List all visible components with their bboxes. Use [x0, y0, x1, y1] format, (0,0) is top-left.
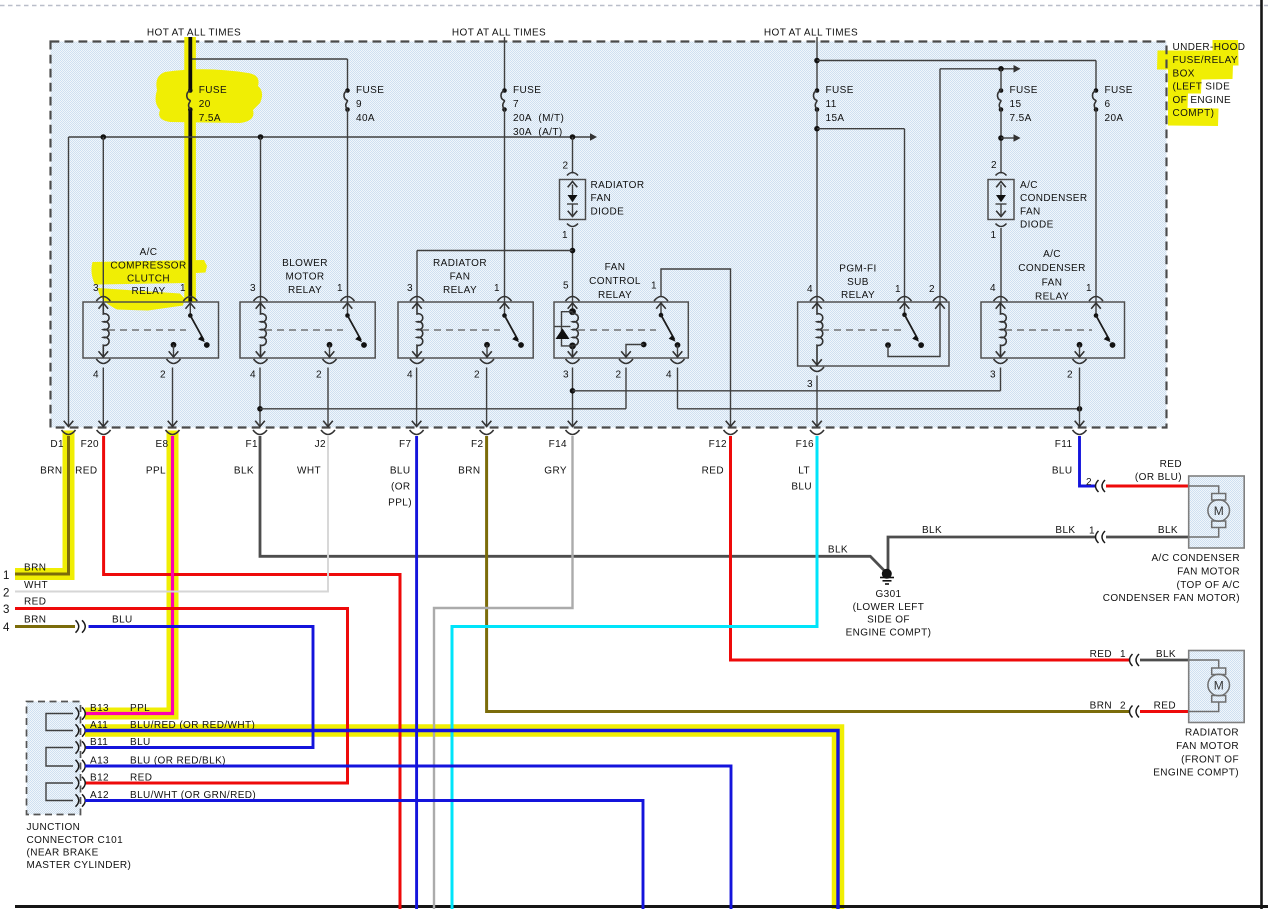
- junction bus / blower relay pin 3: [258, 134, 264, 140]
- relay A/C condenser fan: pin 2 bracket and label: [1073, 359, 1087, 364]
- svg-text:OF ENGINE: OF ENGINE: [1173, 95, 1232, 106]
- svg-text:FUSE: FUSE: [199, 85, 227, 96]
- svg-text:CONDENSER: CONDENSER: [1020, 193, 1088, 204]
- svg-text:4: 4: [990, 283, 996, 294]
- svg-text:2: 2: [616, 370, 622, 381]
- svg-text:(TOP OF A/C: (TOP OF A/C: [1177, 580, 1241, 591]
- svg-text:20A (M/T): 20A (M/T): [513, 113, 564, 124]
- wire PGM-FI sub relay pin 2 riser: [939, 69, 941, 302]
- svg-text:BRN: BRN: [24, 563, 46, 574]
- svg-text:15A: 15A: [826, 113, 845, 124]
- svg-text:4: 4: [407, 370, 413, 381]
- wire connector to radiator motor RED: [1140, 710, 1189, 713]
- svg-text:FUSE: FUSE: [1105, 85, 1133, 96]
- fuse F15 symbol: [999, 88, 1004, 93]
- svg-text:RELAY: RELAY: [1035, 292, 1069, 303]
- svg-text:3: 3: [250, 283, 256, 294]
- svg-text:RED: RED: [130, 773, 152, 784]
- relay radiator fan pin1 entry wire: [504, 302, 506, 316]
- svg-text:3: 3: [990, 370, 996, 381]
- svg-text:B13: B13: [90, 703, 109, 714]
- svg-text:1: 1: [1120, 649, 1126, 660]
- relay fan control: pin 3 bracket and label: [566, 359, 580, 364]
- relay PGM-FI sub pin 1 entry and switch arm: [904, 302, 906, 315]
- svg-text:GRY: GRY: [544, 466, 567, 477]
- svg-text:FUSE: FUSE: [826, 85, 854, 96]
- wire connector to radiator motor BLK: [1140, 659, 1189, 662]
- junction connector C101 pin A13: [76, 760, 79, 772]
- motor M1 A/C condenser fan motor: [1189, 476, 1245, 548]
- relay blower motor pin2 contact and wire: [327, 342, 333, 348]
- svg-text:7: 7: [513, 99, 519, 110]
- wire compressor pin 2 to E8: [172, 368, 174, 428]
- diode radiator fan internals: [572, 185, 574, 196]
- wire line 3 RED to junction connector B12: [15, 609, 348, 784]
- svg-text:6: 6: [1105, 99, 1111, 110]
- wire pin 2 riser to FUSE 15 hot side with off-page arrow: [940, 68, 1014, 70]
- svg-text:2: 2: [474, 370, 480, 381]
- wire compressor pin 4 to F20: [102, 368, 104, 428]
- wire blower pin 2 to J2: [327, 368, 329, 428]
- relay A/C compressor clutch box: [83, 302, 219, 358]
- svg-text:A/C: A/C: [140, 247, 158, 258]
- svg-text:3: 3: [807, 379, 813, 390]
- svg-text:RED: RED: [1154, 701, 1176, 712]
- svg-text:RED: RED: [24, 597, 46, 608]
- wire PGM-FI pin 3 to F16: [816, 376, 818, 428]
- relay fan control NC contact (to pin 2): [641, 342, 647, 348]
- under-hood fuse/relay box dashed border: [51, 42, 1167, 428]
- svg-text:4: 4: [807, 284, 813, 295]
- relay fan control switch arm: [659, 313, 664, 318]
- junction connector C101 pin A11: [76, 724, 79, 736]
- svg-text:A/C CONDENSER: A/C CONDENSER: [1151, 553, 1240, 564]
- svg-text:F20: F20: [81, 439, 99, 450]
- svg-text:BLOWER: BLOWER: [282, 258, 328, 269]
- wire radiator relay pin 2 to F2: [486, 368, 488, 428]
- diode A/C condenser fan internals: [1000, 185, 1002, 196]
- diode radiator fan: pin 1 bracket: [567, 224, 578, 227]
- svg-text:FAN MOTOR: FAN MOTOR: [1176, 741, 1239, 752]
- wire A12 BLU/WHT down to bottom edge: [85, 801, 643, 909]
- ground G301 symbol: [882, 569, 892, 579]
- svg-text:BLK: BLK: [828, 545, 848, 556]
- svg-text:BLK: BLK: [1156, 649, 1176, 660]
- svg-text:SUB: SUB: [847, 277, 869, 288]
- svg-text:ENGINE COMPT): ENGINE COMPT): [1153, 768, 1239, 779]
- svg-text:BRN: BRN: [40, 466, 62, 477]
- junction blower pin 4 / ground crossbar: [257, 406, 263, 412]
- fuse F7 symbol: [502, 88, 507, 93]
- yellow highlight blob over UNDER-HOOD FUSE/RELAY BOX label: [1157, 40, 1239, 126]
- yellow highlight band on D1 BRN wire: [15, 431, 69, 575]
- svg-text:BLU: BLU: [390, 466, 411, 477]
- diode A/C condenser fan: pin 1 bracket: [996, 224, 1007, 227]
- svg-text:BLU: BLU: [130, 737, 151, 748]
- relay radiator fan pin2 contact and wire: [484, 342, 490, 348]
- svg-text:BLU: BLU: [791, 482, 812, 493]
- junction connector C101 box: [27, 702, 81, 815]
- svg-text:RELAY: RELAY: [841, 290, 875, 301]
- wire radiator relay pin 4 to F7: [416, 368, 418, 428]
- page top dashed separator line: [0, 5, 1268, 7]
- wire F1 BLK to ground G301: [260, 436, 887, 573]
- svg-text:(FRONT OF: (FRONT OF: [1181, 754, 1239, 765]
- svg-text:FUSE: FUSE: [1010, 85, 1038, 96]
- svg-text:RED: RED: [75, 466, 97, 477]
- svg-text:J2: J2: [315, 439, 326, 450]
- svg-text:JUNCTION: JUNCTION: [27, 822, 81, 833]
- yellow highlight band on E8 PPL wire: [85, 431, 173, 714]
- svg-text:RELAY: RELAY: [443, 285, 477, 296]
- svg-text:PGM-FI: PGM-FI: [839, 264, 876, 275]
- svg-text:FAN: FAN: [1020, 206, 1041, 217]
- svg-text:7.5A: 7.5A: [199, 113, 221, 124]
- connector inline F11 BLU/RED: [1096, 480, 1099, 492]
- relay fan control coil with parallel diode: [572, 302, 574, 312]
- wire hot feed 3 down to FUSE 11: [816, 37, 818, 91]
- wire diode pin1 to junction: [572, 228, 574, 302]
- svg-text:3: 3: [93, 283, 99, 294]
- svg-text:WHT: WHT: [297, 466, 321, 477]
- relay fan control box: [554, 302, 688, 358]
- diode radiator fan: pin 2 bracket: [567, 173, 578, 176]
- svg-text:RELAY: RELAY: [131, 286, 165, 297]
- svg-text:RADIATOR: RADIATOR: [591, 180, 645, 191]
- svg-text:FAN: FAN: [450, 272, 471, 283]
- svg-text:A/C: A/C: [1043, 249, 1061, 260]
- junction hot feed 3 branch to FUSE 6: [814, 58, 820, 64]
- svg-text:2: 2: [3, 588, 9, 600]
- junction bus / compressor relay pin 3: [101, 134, 107, 140]
- wire crossbar blower pin4 to fan control pin 2: [260, 408, 626, 410]
- relay radiator fan switch arm: [502, 313, 507, 318]
- relay fan control pin1 entry: [660, 302, 662, 315]
- svg-text:3: 3: [407, 283, 413, 294]
- relay A/C condenser fan pin1 entry wire: [1095, 302, 1097, 316]
- svg-text:9: 9: [356, 99, 362, 110]
- svg-text:F11: F11: [1055, 439, 1073, 450]
- connector pin F16 bracket: [810, 430, 824, 435]
- connector pin D1 bracket: [62, 430, 76, 435]
- svg-text:20A: 20A: [1105, 113, 1124, 124]
- svg-text:2: 2: [991, 160, 997, 171]
- svg-text:40A: 40A: [356, 113, 375, 124]
- relay A/C condenser fan pin2 contact and wire: [1077, 342, 1083, 348]
- wire fuse 20 output bus: [69, 136, 593, 138]
- svg-text:BRN: BRN: [1090, 701, 1112, 712]
- connector pin F2 bracket: [480, 430, 494, 435]
- svg-text:1: 1: [3, 570, 9, 582]
- svg-text:M: M: [1214, 679, 1224, 693]
- wire condenser diode pin 1 to relay pin 4: [1000, 228, 1002, 302]
- relay blower motor switch arm: [345, 313, 350, 318]
- svg-text:1: 1: [651, 281, 657, 292]
- wire hot feed to FUSE 20 yellow highlight band: [184, 37, 196, 302]
- relay radiator fan: pin 4 bracket and label: [410, 359, 424, 364]
- wire FUSE 6 output to A/C condenser fan relay pin 1: [1095, 110, 1097, 303]
- wire fan control pin 1 to F12 riser: [661, 269, 731, 427]
- svg-text:(NEAR BRAKE: (NEAR BRAKE: [27, 848, 99, 859]
- svg-text:20: 20: [199, 99, 211, 110]
- svg-text:3: 3: [563, 370, 569, 381]
- svg-text:BLK: BLK: [1158, 525, 1178, 536]
- svg-text:BLK: BLK: [234, 466, 254, 477]
- wire F16 LT BLU down-left-down to bottom edge: [452, 436, 817, 909]
- svg-text:F2: F2: [471, 439, 484, 450]
- svg-text:2: 2: [1067, 370, 1073, 381]
- wire line 4 BLU to junction connector B11: [86, 627, 313, 748]
- svg-text:(LOWER LEFT: (LOWER LEFT: [853, 602, 925, 613]
- svg-text:BLU: BLU: [112, 615, 133, 626]
- svg-text:CLUTCH: CLUTCH: [127, 274, 170, 285]
- junction crossbar / F11 riser: [1077, 406, 1083, 412]
- svg-text:(OR BLU): (OR BLU): [1135, 472, 1182, 483]
- svg-text:1: 1: [895, 284, 901, 295]
- junction FUSE 11 output branch to pin 1: [814, 126, 820, 132]
- wire A11 BLU/RED core down to bottom edge: [85, 731, 838, 909]
- svg-text:UNDER-HOOD: UNDER-HOOD: [1173, 42, 1246, 53]
- svg-text:F14: F14: [549, 439, 567, 450]
- svg-text:FAN MOTOR: FAN MOTOR: [1177, 566, 1240, 577]
- wire bus left leg down to D1: [68, 137, 70, 427]
- svg-text:PPL: PPL: [146, 466, 166, 477]
- svg-text:BLK: BLK: [922, 525, 942, 536]
- junction diode output / radiator fan relay pin 3 branch: [570, 248, 576, 254]
- relay A/C compressor clutch pin2 contact and wire: [171, 342, 177, 348]
- junction connector C101 pin B11: [76, 741, 79, 753]
- relay A/C compressor clutch: pin 4 bracket and label: [96, 359, 110, 364]
- svg-text:G301: G301: [875, 589, 901, 600]
- connector inline radiator motor upper: [1130, 654, 1133, 666]
- wire F11 BLU to A/C condenser fan motor connector: [1080, 436, 1096, 486]
- svg-text:E8: E8: [155, 439, 168, 450]
- relay A/C condenser fan box: [981, 302, 1125, 358]
- motor M2 radiator fan motor: [1189, 651, 1245, 723]
- svg-text:11: 11: [826, 99, 837, 110]
- svg-text:(LEFT SIDE: (LEFT SIDE: [1173, 82, 1231, 93]
- svg-text:WHT: WHT: [24, 580, 48, 591]
- svg-text:FAN: FAN: [605, 262, 626, 273]
- svg-text:HOT AT ALL TIMES: HOT AT ALL TIMES: [147, 28, 241, 39]
- wire fan control pin 3 to F14: [572, 368, 574, 428]
- svg-text:CONDENSER: CONDENSER: [1018, 263, 1086, 274]
- svg-text:1: 1: [494, 283, 500, 294]
- svg-text:PPL: PPL: [130, 703, 150, 714]
- svg-text:RELAY: RELAY: [598, 290, 632, 301]
- page right border line: [1260, 0, 1263, 909]
- relay A/C condenser fan stationary contact: [1110, 342, 1116, 348]
- relay A/C compressor clutch: pin 2 bracket and label: [167, 359, 181, 364]
- junction fan control pin 3 / condenser relay pin 3 link: [570, 388, 576, 394]
- svg-text:CONDENSER FAN MOTOR): CONDENSER FAN MOTOR): [1103, 593, 1240, 604]
- svg-text:BRN: BRN: [458, 466, 480, 477]
- svg-text:FUSE/RELAY: FUSE/RELAY: [1173, 55, 1239, 66]
- svg-text:2: 2: [1086, 477, 1092, 488]
- svg-text:1: 1: [1089, 526, 1095, 537]
- svg-text:HOT AT ALL TIMES: HOT AT ALL TIMES: [452, 28, 546, 39]
- connector pin F1 bracket: [253, 430, 267, 435]
- junction FUSE 15 top: [998, 66, 1004, 72]
- relay A/C compressor clutch pin1 entry wire: [189, 302, 191, 316]
- svg-text:F1: F1: [246, 439, 259, 450]
- wire connector to condenser motor BLK: [1106, 536, 1189, 539]
- svg-text:FUSE: FUSE: [356, 85, 384, 96]
- svg-text:F7: F7: [399, 439, 412, 450]
- connector inline radiator motor lower: [1130, 706, 1133, 718]
- relay A/C condenser fan switch arm: [1094, 313, 1099, 318]
- wire motor BLK to ground G301: [888, 537, 1095, 570]
- yellow highlight blob over FUSE 20: [156, 69, 263, 123]
- svg-text:1: 1: [337, 283, 343, 294]
- fuse F6 symbol: [1094, 88, 1099, 93]
- svg-text:RADIATOR: RADIATOR: [1185, 728, 1239, 739]
- connector on line 4 BRN/BLU: [76, 620, 79, 632]
- svg-text:FUSE: FUSE: [513, 85, 541, 96]
- svg-text:4: 4: [250, 370, 256, 381]
- junction connector C101 internal bridge B12-A12: [46, 783, 73, 801]
- relay PGM-FI sub NC contact to pin 2 path: [885, 342, 891, 348]
- svg-text:F12: F12: [709, 439, 727, 450]
- svg-text:M: M: [1214, 504, 1224, 518]
- relay radiator fan coil: [417, 302, 423, 358]
- connector pin F7 bracket: [410, 430, 424, 435]
- svg-text:1: 1: [562, 230, 568, 241]
- wire F14 GRY down-left-down to bottom edge: [434, 436, 573, 909]
- svg-text:CONNECTOR C101: CONNECTOR C101: [27, 835, 124, 846]
- svg-text:1: 1: [1086, 283, 1092, 294]
- svg-text:2: 2: [563, 161, 569, 172]
- relay A/C compressor clutch stationary contact: [204, 342, 210, 348]
- connector pin F12 bracket: [724, 430, 738, 435]
- relay radiator fan dashed armature line: [422, 329, 500, 331]
- svg-text:B11: B11: [90, 737, 108, 748]
- svg-text:4: 4: [666, 370, 672, 381]
- svg-text:5: 5: [563, 281, 569, 292]
- svg-text:B12: B12: [90, 773, 109, 784]
- svg-text:BLU: BLU: [1052, 466, 1073, 477]
- yellow highlight blob over A/C COMPRESSOR CLUTCH RELAY label (stroke 1): [91, 260, 207, 285]
- svg-text:RED: RED: [1090, 649, 1112, 660]
- svg-text:PPL): PPL): [388, 498, 412, 509]
- wire FUSE 7 to radiator fan relay pin 1: [504, 110, 506, 303]
- relay PGM-FI sub coil: [817, 302, 823, 366]
- svg-text:RADIATOR: RADIATOR: [433, 258, 487, 269]
- connector pin E8 bracket: [166, 430, 180, 435]
- connector inline condenser motor BLK: [1096, 531, 1099, 543]
- relay radiator fan box: [398, 302, 533, 358]
- wire condenser relay pin 2 to F11: [1079, 368, 1081, 428]
- relay PGM-FI sub moving contact dot: [918, 342, 924, 348]
- relay A/C compressor clutch dashed armature line: [108, 329, 186, 331]
- wire F2 BRN to radiator fan motor connector: [487, 436, 1130, 712]
- wire fan control pin 4 to F11 crossbar: [677, 368, 679, 409]
- svg-text:MASTER CYLINDER): MASTER CYLINDER): [27, 860, 132, 871]
- svg-text:F16: F16: [796, 439, 814, 450]
- svg-text:3: 3: [3, 604, 9, 616]
- wire E8 PPL to junction connector B13: [85, 436, 173, 714]
- svg-text:RED: RED: [1160, 459, 1182, 470]
- relay A/C condenser fan: pin 3 bracket and label: [994, 359, 1008, 364]
- svg-text:2: 2: [1120, 701, 1126, 712]
- svg-text:DIODE: DIODE: [591, 206, 625, 217]
- svg-text:(OR: (OR: [391, 482, 411, 493]
- svg-text:A/C: A/C: [1020, 180, 1038, 191]
- wire connector to condenser motor RED: [1106, 485, 1189, 488]
- connector pin J2 bracket: [321, 430, 335, 435]
- relay PGM-FI sub box: [798, 302, 949, 366]
- svg-text:RELAY: RELAY: [288, 285, 322, 296]
- svg-text:7.5A: 7.5A: [1010, 113, 1032, 124]
- wire D1 BRN to left edge line 1: [15, 436, 69, 574]
- diode A/C condenser fan box: [988, 180, 1014, 220]
- junction connector C101 pin B12: [76, 777, 79, 789]
- wire FUSE 15 output down: [1000, 110, 1002, 174]
- svg-text:4: 4: [93, 370, 99, 381]
- relay A/C compressor clutch coil: [103, 302, 109, 358]
- connector pin F14 bracket: [566, 430, 580, 435]
- relay A/C condenser fan dashed armature line: [1005, 329, 1092, 331]
- wire F12 RED to radiator fan motor connector: [731, 436, 1130, 660]
- junction connector C101 internal bridge B11-A13: [46, 748, 73, 767]
- wire F20 RED down-right-down to bottom edge: [104, 436, 400, 909]
- wire branch from hot feed to FUSE 9: [191, 58, 348, 60]
- relay radiator fan: pin 2 bracket and label: [480, 359, 494, 364]
- fuse F9 symbol: [345, 88, 350, 93]
- svg-text:4: 4: [3, 622, 10, 634]
- relay PGM-FI sub dashed armature line: [822, 329, 901, 331]
- relay radiator fan stationary contact: [518, 342, 524, 348]
- relay PGM-FI sub: pin 3 bracket and label: [810, 367, 824, 372]
- svg-text:FAN: FAN: [1042, 278, 1063, 289]
- svg-text:HOT AT ALL TIMES: HOT AT ALL TIMES: [764, 28, 858, 39]
- wire hot feed 2 down to FUSE 7: [504, 37, 506, 91]
- yellow highlight blob over A/C COMPRESSOR CLUTCH RELAY label (stroke 2): [98, 288, 185, 311]
- svg-text:COMPT): COMPT): [1173, 108, 1215, 119]
- relay blower motor: pin 2 bracket and label: [323, 359, 337, 364]
- svg-text:COMPRESSOR: COMPRESSOR: [110, 261, 186, 272]
- yellow highlight band on A11 BLU/RED wire: [85, 731, 838, 909]
- connector pin F11 bracket: [1073, 430, 1087, 435]
- junction bus / radiator fan diode pin 2: [570, 134, 576, 140]
- svg-text:ENGINE COMPT): ENGINE COMPT): [846, 627, 932, 638]
- relay fan control: pin 4 bracket and label: [671, 359, 685, 364]
- relay A/C condenser fan coil: [1001, 302, 1007, 358]
- relay blower motor coil: [261, 302, 267, 358]
- fuse F11 symbol: [815, 88, 820, 93]
- relay fan control NO contact (to pin 4): [675, 342, 681, 348]
- page bottom border line: [15, 905, 1268, 908]
- wire F7 BLU straight down to bottom edge: [415, 436, 418, 909]
- diode radiator fan box: [560, 180, 586, 220]
- svg-text:LT: LT: [798, 466, 810, 477]
- relay blower motor dashed armature line: [265, 329, 343, 331]
- wire blower pin 4 to F1: [259, 368, 261, 428]
- svg-text:RED: RED: [702, 466, 724, 477]
- svg-text:MOTOR: MOTOR: [285, 272, 324, 283]
- connector pin F20 bracket: [97, 430, 111, 435]
- fuse F20 symbol: [188, 88, 193, 93]
- relay blower motor stationary contact: [361, 342, 367, 348]
- diode A/C condenser fan: pin 2 bracket: [996, 173, 1007, 176]
- svg-text:DIODE: DIODE: [1020, 220, 1054, 231]
- svg-text:1: 1: [991, 230, 997, 241]
- relay blower motor box: [240, 302, 375, 358]
- wire FUSE 11 output to PGM-FI sub relay pin 4: [816, 110, 818, 303]
- relay blower motor: pin 4 bracket and label: [254, 359, 268, 364]
- svg-text:15: 15: [1010, 99, 1022, 110]
- wire FUSE 9 to blower motor relay pin 1: [347, 110, 349, 303]
